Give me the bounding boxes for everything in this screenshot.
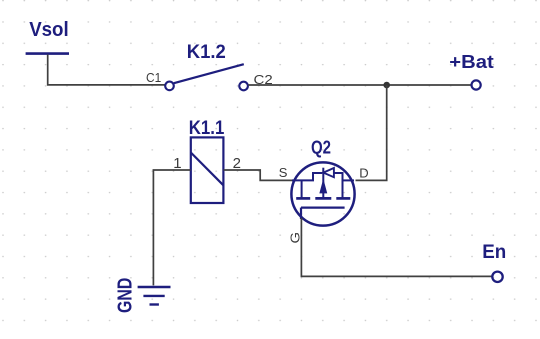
source inner path [292,173,322,180]
gate exit vertical [300,208,302,219]
wire gate to En [301,218,492,276]
body diode triangle [323,168,334,177]
svg-text:D: D [359,165,368,180]
junction [383,82,390,89]
diode anode link to drain vertical [334,173,343,198]
svg-text:En: En [482,242,506,263]
power flag Vsol bar [26,52,69,55]
wire relay pin 2 to source [224,170,293,180]
wire C2 to +Bat [248,84,471,86]
switch K1.2 [165,64,248,90]
channel bar middle [315,197,331,200]
pin C2 contact circle [239,82,248,91]
channel bar right [336,197,350,200]
svg-text:K1.2: K1.2 [187,42,226,63]
bulk vertical with diode cathode [322,168,324,198]
wire Vsol to C1 [48,55,165,85]
channel bar left [296,197,310,200]
switch blade [174,64,244,83]
svg-text:Q2: Q2 [311,137,331,157]
transistor body circle [291,162,354,225]
source vertical to channel [301,180,303,197]
gate line [301,207,345,209]
wire junction to drain [356,85,387,180]
drain inner path [343,179,355,181]
terminal +Bat circle [472,80,481,89]
svg-text:+Bat: +Bat [449,52,493,72]
wire relay pin 1 to GND [153,170,190,285]
relay coil K1.1 [191,137,224,203]
svg-text:Vsol: Vsol [29,19,68,41]
svg-text:G: G [288,232,303,244]
mosfet Q2 [291,162,354,225]
pin C1 contact circle [165,82,174,91]
svg-text:K1.1: K1.1 [189,118,225,139]
svg-text:GND: GND [115,278,137,313]
svg-text:C1: C1 [146,70,161,85]
bulk arrow [320,181,327,193]
ground GND [138,287,171,305]
svg-text:S: S [279,165,288,180]
terminal En circle [492,272,502,282]
